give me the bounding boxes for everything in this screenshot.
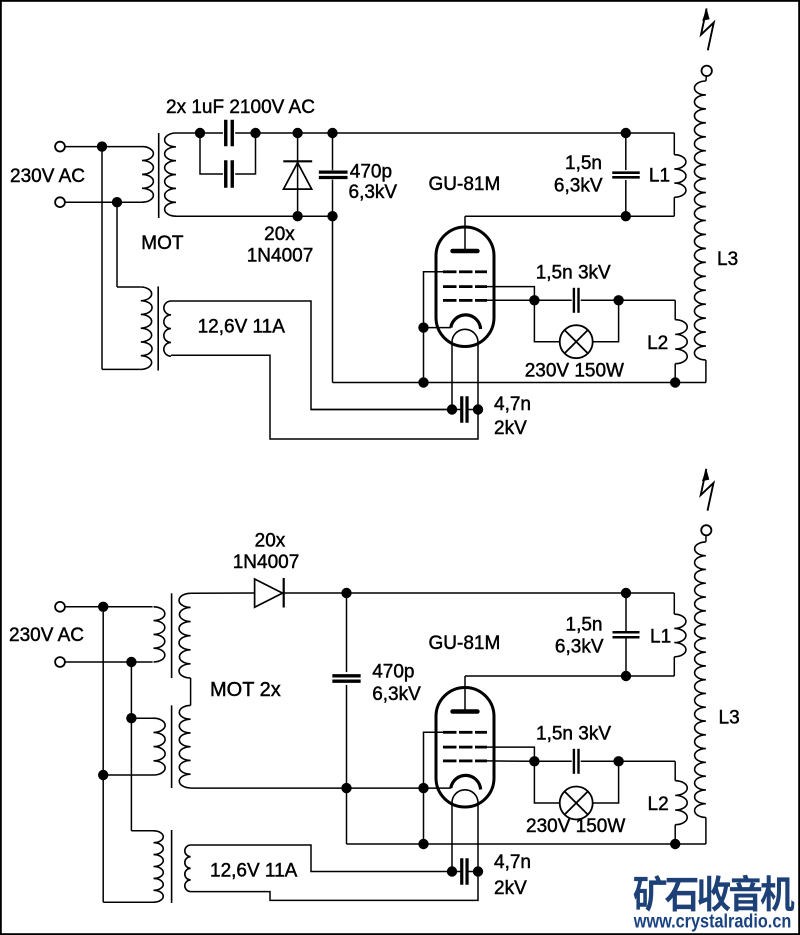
svg-text:MOT 2x: MOT 2x (210, 679, 281, 701)
svg-text:1,5n 3kV: 1,5n 3kV (536, 262, 611, 283)
svg-text:20x: 20x (255, 530, 286, 551)
svg-text:www.crystalradio.cn: www.crystalradio.cn (633, 911, 791, 932)
svg-text:GU-81M: GU-81M (429, 174, 501, 195)
svg-text:12,6V 11A: 12,6V 11A (210, 861, 298, 882)
svg-text:6,3kV: 6,3kV (555, 636, 604, 657)
svg-text:1,5n 3kV: 1,5n 3kV (536, 724, 611, 745)
svg-text:L2: L2 (647, 333, 668, 354)
svg-text:L3: L3 (717, 249, 738, 270)
svg-text:6,3kV: 6,3kV (372, 684, 421, 705)
svg-text:2kV: 2kV (494, 878, 527, 899)
svg-text:470p: 470p (350, 161, 392, 182)
svg-text:20x: 20x (264, 224, 295, 245)
svg-text:2kV: 2kV (494, 418, 527, 439)
svg-text:2x 1uF 2100V AC: 2x 1uF 2100V AC (166, 97, 315, 118)
svg-text:MOT: MOT (141, 233, 184, 254)
svg-text:4,7n: 4,7n (494, 394, 531, 415)
svg-text:L3: L3 (719, 708, 740, 729)
svg-text:L1: L1 (649, 166, 670, 187)
svg-text:L2: L2 (648, 794, 669, 815)
svg-text:470p: 470p (372, 661, 414, 682)
svg-text:4,7n: 4,7n (494, 852, 531, 873)
svg-text:1N4007: 1N4007 (233, 552, 300, 573)
svg-text:6,3kV: 6,3kV (349, 182, 398, 203)
svg-text:GU-81M: GU-81M (429, 633, 501, 654)
svg-text:1,5n: 1,5n (566, 615, 603, 636)
svg-text:12,6V 11A: 12,6V 11A (198, 317, 286, 338)
svg-text:230V 150W: 230V 150W (526, 816, 625, 837)
svg-text:1N4007: 1N4007 (247, 246, 314, 267)
svg-text:230V AC: 230V AC (10, 166, 85, 187)
svg-text:230V AC: 230V AC (9, 625, 84, 646)
svg-text:230V 150W: 230V 150W (525, 361, 624, 382)
svg-text:1,5n: 1,5n (565, 153, 602, 174)
svg-text:6,3kV: 6,3kV (554, 175, 603, 196)
svg-text:L1: L1 (650, 627, 671, 648)
